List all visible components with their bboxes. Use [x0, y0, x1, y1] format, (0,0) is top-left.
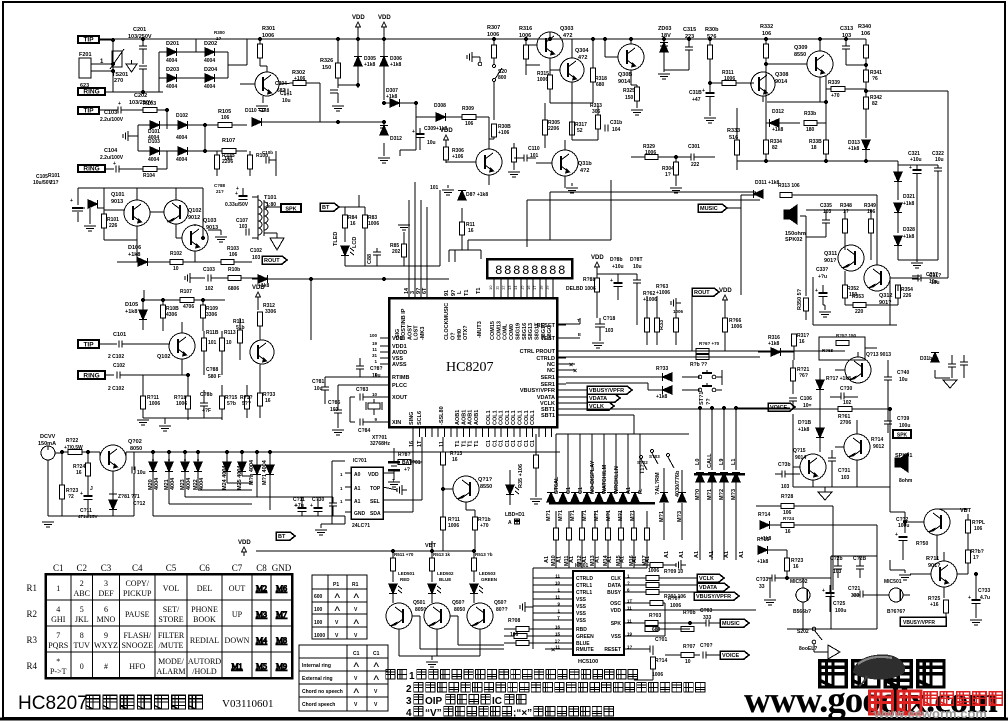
- ground tr: [935, 370, 957, 388]
- svg-text:/MUTE: /MUTE: [159, 641, 184, 650]
- svg-text:150: 150: [322, 65, 331, 71]
- matrix bottom labels: [664, 551, 745, 558]
- svg-text:VDATA: VDATA: [699, 585, 717, 591]
- note line 4: [406, 707, 614, 719]
- table chord config: [299, 645, 388, 711]
- svg-text:C106: C106: [800, 396, 812, 402]
- ground 101: [430, 185, 454, 195]
- svg-text:S8G16: S8G16: [522, 323, 528, 340]
- version text: [222, 698, 274, 710]
- svg-text:Q102: Q102: [188, 208, 201, 214]
- tag BT: [320, 203, 345, 215]
- svg-text:9012: 9012: [873, 444, 884, 450]
- svg-text:Chord speech: Chord speech: [302, 702, 335, 708]
- svg-text:9: 9: [104, 631, 108, 640]
- transistor Q?14: [835, 420, 884, 460]
- svg-text:D?8T: D?8T: [630, 257, 643, 263]
- resistor R?24b: [781, 516, 877, 560]
- wire F201 pins: [91, 40, 113, 92]
- X mark rmute: [545, 647, 563, 654]
- wire x905: [890, 487, 905, 533]
- cap 0.33u: [225, 186, 249, 208]
- svg-text:R?08: R?08: [508, 618, 520, 624]
- svg-text:PLCC: PLCC: [392, 383, 407, 389]
- diode D110: [245, 108, 270, 126]
- resistor R?13t: [778, 183, 877, 232]
- svg-text:103: 103: [781, 484, 790, 490]
- diode MB1: [659, 468, 668, 540]
- svg-text:BOSTINB IP: BOSTINB IP: [401, 308, 407, 340]
- svg-text:Q311: Q311: [824, 251, 837, 257]
- ground amp1: [84, 208, 96, 231]
- wire right out: [247, 261, 252, 263]
- wire ic top feeds: [359, 182, 428, 298]
- diode D?1B: [798, 404, 824, 452]
- svg-text:C31?: C31?: [929, 273, 941, 279]
- wire VBT rail: [256, 541, 476, 553]
- svg-text:M3: M3: [256, 610, 267, 619]
- capacitor C107: [236, 218, 249, 236]
- svg-text:R?6? +70: R?6? +70: [699, 341, 720, 346]
- svg-text:VDD: VDD: [610, 608, 621, 614]
- matrix resistor row: [551, 511, 650, 566]
- svg-text:R309: R309: [462, 106, 474, 112]
- svg-text:106: 106: [229, 252, 238, 258]
- svg-text:+: +: [815, 288, 818, 294]
- svg-text:PICKUP: PICKUP: [123, 589, 152, 598]
- svg-text:ST6AL: ST6AL: [554, 476, 560, 494]
- svg-text:R2: R2: [26, 609, 37, 619]
- capacitor C105: [248, 150, 277, 176]
- svg-text:M?1: M?1: [630, 510, 636, 521]
- wire diode row2: [138, 125, 205, 165]
- wire scl sda: [413, 437, 422, 512]
- svg-text:L9: L9: [719, 459, 725, 465]
- resistor R?14r: [651, 657, 668, 678]
- svg-text:SET/: SET/: [163, 605, 180, 614]
- diode D?28: [894, 227, 915, 260]
- svg-text:DOWN: DOWN: [225, 636, 250, 645]
- svg-text:External ring: External ring: [302, 676, 333, 682]
- power VDD rout: [719, 288, 732, 318]
- svg-text:C?33: C?33: [756, 577, 768, 583]
- tag BT2: [276, 532, 295, 540]
- LED LED501 red: [389, 571, 415, 603]
- svg-text:F201: F201: [79, 52, 92, 58]
- cap C?3?: [815, 267, 828, 305]
- svg-text:C?25: C?25: [833, 601, 845, 607]
- tag VCLK2: [697, 574, 724, 582]
- svg-text:LBD=D1: LBD=D1: [505, 512, 525, 518]
- resistor R?85: [390, 232, 407, 266]
- ground Q301: [256, 106, 268, 111]
- svg-text:106: 106: [861, 31, 870, 37]
- watermark goodix: [744, 680, 998, 721]
- svg-text:13: 13: [507, 285, 512, 290]
- resistor R107b: [180, 289, 225, 310]
- svg-text:UP: UP: [232, 610, 243, 619]
- svg-text:14: 14: [513, 285, 518, 290]
- svg-text:R.: R.: [638, 488, 644, 494]
- svg-text:LED501: LED501: [398, 571, 415, 576]
- svg-text:S?03: S?03: [649, 454, 660, 459]
- diode D101: [148, 121, 160, 141]
- svg-text:VBUSY/VPFR: VBUSY/VPFR: [589, 388, 624, 394]
- wire IC bottom stubs: [413, 427, 552, 437]
- svg-text:VBT: VBT: [425, 543, 437, 549]
- wire diode row1: [138, 121, 205, 151]
- svg-text:M6: M6: [276, 584, 287, 593]
- svg-text:1: 1: [56, 584, 60, 593]
- svg-text:Q308: Q308: [775, 72, 788, 78]
- svg-text:101: 101: [208, 340, 217, 346]
- svg-text:RBD: RBD: [576, 627, 587, 633]
- svg-text:D8? +1k8: D8? +1k8: [466, 192, 488, 198]
- capacitor C1 10u: [280, 89, 292, 105]
- svg-text:150: 150: [625, 95, 634, 101]
- svg-text:D31b: D31b: [920, 356, 932, 362]
- capacitor C304: [275, 81, 338, 103]
- svg-text:P1: P1: [333, 582, 339, 588]
- resistor R109: [201, 300, 219, 331]
- wire matrix to IC3 bus: [533, 553, 647, 571]
- svg-text:Q?1?: Q?1?: [478, 477, 493, 483]
- ground C304: [332, 106, 344, 111]
- resistor R?09l: [504, 634, 563, 639]
- svg-text:901?: 901?: [824, 258, 837, 264]
- wire bridge: [143, 39, 228, 92]
- svg-text:D106: D106: [128, 245, 141, 251]
- wire eeprom right: [383, 473, 422, 512]
- svg-text:C304: C304: [275, 81, 287, 87]
- svg-text:VDATA: VDATA: [589, 396, 607, 402]
- svg-text:9012: 9012: [188, 215, 200, 221]
- diode D?15: [757, 537, 787, 565]
- resistor R?50m: [890, 541, 928, 570]
- svg-text:?6?: ?6?: [799, 373, 808, 379]
- svg-text:M?1: M?1: [707, 489, 713, 500]
- wire LED bases: [412, 616, 504, 649]
- note line 2: [406, 683, 705, 695]
- svg-text:16: 16: [76, 470, 82, 476]
- svg-text:TOP: TOP: [370, 486, 381, 492]
- resistor R?11: [460, 222, 476, 245]
- resistor R?8?e: [398, 452, 422, 465]
- svg-text:1006: 1006: [262, 33, 274, 39]
- svg-text:106: 106: [465, 121, 474, 127]
- svg-text:B?6?6?: B?6?6?: [887, 609, 905, 615]
- resistor R307: [487, 25, 500, 64]
- IC U1 top pin labels C: [490, 321, 553, 340]
- svg-text:3306: 3306: [265, 309, 276, 315]
- svg-text:COML: COML: [503, 323, 509, 340]
- svg-text:WXYZ: WXYZ: [94, 641, 118, 650]
- svg-text:MIC501: MIC501: [884, 579, 902, 585]
- svg-text:SPK: SPK: [897, 432, 908, 438]
- svg-text:VDD: VDD: [368, 472, 379, 478]
- svg-text:6T: 6T: [422, 287, 428, 294]
- resistor R?11r: [141, 395, 161, 418]
- svg-text:2 C102: 2 C102: [108, 354, 124, 360]
- svg-text:/HOLD: /HOLD: [192, 667, 217, 676]
- wire L-column rail: [698, 406, 790, 470]
- zener D312: [380, 122, 402, 156]
- svg-text:D103: D103: [148, 139, 160, 145]
- svg-text:4.7u: 4.7u: [980, 595, 990, 601]
- resistor R?03b: [645, 627, 690, 632]
- cap C?32: [895, 517, 909, 560]
- svg-text:R?50: R?50: [916, 541, 928, 547]
- svg-text:L1: L1: [731, 459, 737, 465]
- svg-text:32768Hz: 32768Hz: [370, 441, 391, 447]
- svg-text:×: ×: [551, 647, 555, 654]
- svg-text:C10b: C10b: [262, 150, 273, 155]
- svg-text:4004: 4004: [204, 84, 215, 90]
- resistor R?23m: [785, 550, 804, 578]
- svg-text:580 F: 580 F: [208, 374, 221, 380]
- svg-text:18: 18: [538, 285, 543, 290]
- svg-text:R316: R316: [519, 26, 532, 32]
- svg-text:8ohm: 8ohm: [899, 478, 913, 484]
- svg-text:VSS: VSS: [576, 604, 587, 610]
- svg-text:15: 15: [520, 285, 525, 290]
- resistor R?22: [60, 438, 100, 455]
- svg-text:DELBD 1006: DELBD 1006: [566, 286, 596, 292]
- wire TIP1 to rail: [99, 38, 115, 41]
- svg-text:COL1: COL1: [518, 410, 524, 425]
- wire y266: [345, 190, 440, 266]
- connector TIP2: [78, 107, 99, 114]
- svg-text:4004: 4004: [199, 477, 205, 490]
- svg-text:101: 101: [430, 185, 439, 191]
- svg-text:E: E: [578, 332, 581, 337]
- ground amp: [819, 305, 831, 317]
- svg-text:D?8b: D?8b: [610, 257, 623, 263]
- svg-text:106: 106: [974, 526, 983, 532]
- svg-text:GND: GND: [272, 563, 292, 573]
- svg-text:GND: GND: [354, 511, 366, 517]
- wire rail452 dots: [151, 450, 271, 453]
- buffer tri: [828, 645, 840, 659]
- cap C?31v: [828, 450, 850, 487]
- cap C?83: [350, 387, 389, 434]
- svg-text:4004: 4004: [176, 135, 187, 141]
- svg-text:M?2: M?2: [719, 489, 725, 500]
- earth arrow: [126, 60, 137, 72]
- svg-text:R30b: R30b: [705, 27, 719, 33]
- tag SPK sm: [893, 430, 911, 438]
- resistor R?0b: [681, 610, 696, 632]
- svg-text:82: 82: [872, 101, 878, 107]
- svg-text:+1k8: +1k8: [757, 559, 768, 565]
- svg-text:-MK3: -MK3: [420, 327, 426, 340]
- svg-text:HC8207: HC8207: [18, 693, 88, 714]
- svg-text:HC8207: HC8207: [446, 360, 493, 375]
- svg-text:CLOCKMUSIC: CLOCKMUSIC: [444, 303, 450, 340]
- svg-text:C31B: C31B: [689, 90, 702, 96]
- svg-text:C5: C5: [166, 563, 177, 573]
- svg-text:C?83: C?83: [356, 387, 368, 393]
- resistor F201: [79, 52, 104, 89]
- svg-text:DATA: DATA: [608, 583, 622, 589]
- svg-text:CTRL PROUT: CTRL PROUT: [520, 349, 556, 355]
- resistor R?20: [756, 494, 833, 590]
- ground side: [467, 52, 482, 66]
- svg-text:AOB1: AOB1: [474, 410, 480, 425]
- svg-text:Q304: Q304: [575, 48, 589, 54]
- wire rail162: [737, 159, 898, 162]
- svg-text:VSS: VSS: [576, 618, 587, 624]
- capacitor C103: [99, 101, 143, 123]
- svg-text:R332: R332: [760, 24, 773, 30]
- svg-text:Q50?: Q50?: [452, 600, 465, 606]
- capacitor C202: [129, 66, 153, 106]
- svg-text:103: 103: [841, 475, 850, 481]
- svg-text:Q31b: Q31b: [578, 161, 592, 167]
- svg-text:102: 102: [843, 400, 852, 406]
- resistor R?66: [723, 318, 743, 351]
- resistor R?2?m: [928, 596, 949, 622]
- svg-text:R333: R333: [727, 128, 740, 134]
- table keypad matrix: [26, 563, 292, 678]
- svg-text:C1: C1: [524, 440, 530, 447]
- svg-text:100: 100: [314, 607, 323, 613]
- resistor R?50: [797, 288, 809, 320]
- resistor R512: [430, 551, 451, 582]
- wire matrix top rail: [556, 433, 689, 435]
- ground ZD03: [658, 74, 670, 79]
- svg-text:RING: RING: [83, 165, 99, 172]
- svg-text:TIP: TIP: [83, 107, 94, 114]
- svg-text:16: 16: [526, 285, 531, 290]
- svg-text:6: 6: [104, 605, 108, 614]
- svg-text:Q309: Q309: [794, 45, 807, 51]
- transistor Q104: [157, 322, 195, 375]
- svg-text:3: 3: [104, 579, 108, 588]
- svg-text:306: 306: [592, 109, 601, 115]
- resistor R?49: [864, 203, 876, 260]
- svg-text:VSS: VSS: [576, 611, 587, 617]
- svg-text:A1: A1: [569, 556, 575, 563]
- watermark dianzi red: [924, 692, 1002, 705]
- svg-text:8: 8: [513, 264, 521, 278]
- svg-text:SPK02: SPK02: [785, 237, 802, 243]
- cap C?2b: [830, 556, 843, 578]
- wire amp box: [813, 277, 947, 325]
- svg-text:R?33: R?33: [656, 366, 668, 372]
- wire main VDD top rail: [99, 39, 866, 45]
- resistor R103b: [195, 246, 247, 265]
- ground IC3: [520, 602, 533, 612]
- svg-text:COL1: COL1: [492, 410, 498, 425]
- svg-text:IC?01: IC?01: [353, 458, 367, 464]
- cap C?8br: [200, 367, 221, 418]
- svg-text:C2: C2: [76, 563, 87, 573]
- resistor R11B: [202, 330, 219, 375]
- svg-text:1?: 1?: [973, 555, 979, 561]
- diode D?1b t: [920, 353, 939, 362]
- diode D306: [380, 31, 402, 100]
- resistor R?84: [343, 207, 366, 242]
- svg-text:*: *: [56, 657, 60, 666]
- cap C?84: [350, 419, 389, 426]
- svg-text:+: +: [236, 186, 239, 192]
- tag VCLK: [566, 402, 614, 410]
- svg-text:1006: 1006: [724, 76, 735, 82]
- svg-text:C?84: C?84: [358, 428, 370, 434]
- svg-text:R33b: R33b: [804, 111, 816, 117]
- svg-text:COL1: COL1: [524, 410, 530, 425]
- svg-text:8550: 8550: [480, 484, 492, 490]
- svg-text:106: 106: [221, 115, 230, 121]
- svg-text:R513 1k: R513 1k: [433, 552, 451, 557]
- svg-text:682: 682: [277, 88, 286, 94]
- cap C?81: [312, 377, 389, 404]
- svg-text:R107: R107: [222, 138, 235, 144]
- IC3 HC5100 body: [573, 563, 624, 665]
- diode D307: [382, 88, 416, 107]
- svg-text:2: 2: [406, 684, 412, 695]
- svg-text:R325: R325: [623, 88, 635, 94]
- svg-text:C202: C202: [134, 93, 147, 99]
- svg-text:ROUT: ROUT: [264, 258, 280, 264]
- capacitor C103b: [203, 267, 228, 292]
- tag VBUSY2: [694, 592, 739, 600]
- cap C?21m: [848, 586, 877, 599]
- svg-text:8: 8: [504, 264, 512, 278]
- svg-text:680: 680: [652, 627, 661, 633]
- cap C?33m: [756, 575, 787, 599]
- svg-text:C1: C1: [499, 440, 505, 447]
- svg-text:+: +: [702, 88, 705, 94]
- svg-text:2206: 2206: [222, 159, 233, 165]
- table ring config: [312, 575, 367, 639]
- wire d305 node: [338, 83, 360, 88]
- svg-text:5?b: 5?b: [227, 401, 236, 407]
- diode D?17: [816, 368, 851, 404]
- transistor Q?12: [864, 232, 892, 306]
- svg-text:4004: 4004: [170, 477, 176, 490]
- svg-text:9014: 9014: [795, 455, 806, 461]
- battery BAT?01: [388, 452, 421, 480]
- resistor R?08: [504, 618, 563, 638]
- svg-text:1006: 1006: [368, 221, 379, 227]
- svg-text:VSS: VSS: [576, 597, 587, 603]
- svg-text:+: +: [909, 165, 912, 171]
- svg-text:+16: +16: [930, 602, 939, 608]
- LED LBD=D1: [505, 470, 525, 526]
- svg-text:ROUT: ROUT: [694, 290, 710, 296]
- resistor R?07: [665, 644, 700, 665]
- svg-text:10u: 10u: [372, 373, 381, 379]
- svg-text:R353: R353: [852, 294, 864, 300]
- svg-text:10u: 10u: [137, 470, 146, 476]
- svg-text:LED502: LED502: [437, 571, 454, 576]
- resistor R?23: [60, 452, 79, 516]
- labels extra top: [214, 30, 225, 41]
- svg-text:+1k8: +1k8: [903, 234, 914, 240]
- wire tip2 node: [157, 108, 169, 121]
- svg-text:L0: L0: [695, 459, 701, 465]
- svg-text:C313: C313: [840, 26, 853, 32]
- svg-text:S8G13: S8G13: [528, 323, 534, 340]
- svg-text:VDD: VDD: [352, 15, 365, 21]
- svg-text:T1: T1: [476, 288, 482, 294]
- svg-text:31: 31: [372, 353, 378, 358]
- transistor Q102: [150, 188, 201, 224]
- svg-text:10u: 10u: [935, 157, 944, 163]
- svg-text:9014: 9014: [618, 79, 631, 85]
